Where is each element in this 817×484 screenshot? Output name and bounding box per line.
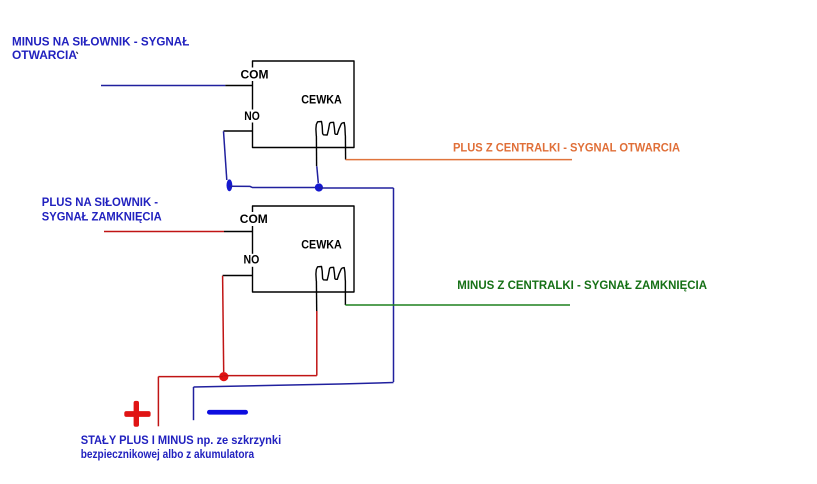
- wire: NO K1 down to node A (blue): [224, 131, 227, 180]
- wire: down to minus terminal (blue): [193, 387, 195, 420]
- wire: COM K1 stub (black): [225, 85, 252, 87]
- relay K1 body: [253, 61, 355, 148]
- relay K2 body: [253, 206, 355, 292]
- battery plus terminal symbol (red +): [124, 401, 150, 427]
- node C junction (red dot): [219, 372, 228, 381]
- wire: down to plus terminal (red): [157, 377, 159, 427]
- wire: riser up to coil L2 (red): [316, 311, 318, 376]
- coil L2 left lead (black): [315, 281, 317, 311]
- label: PLUS NA SILOWNIK - SYGNAL ZAMKNIECIA (blue): [42, 197, 162, 224]
- svg-text:NO: NO: [244, 253, 260, 267]
- wire: COM K2 stub (black): [224, 231, 253, 233]
- svg-text:OTWARCIA: OTWARCIA: [12, 50, 77, 62]
- wire: node C to coil riser (red): [223, 375, 316, 377]
- wire: right riser down (blue): [393, 188, 395, 382]
- wire: plus z centralki (orange): [346, 159, 572, 161]
- svg-text:COM: COM: [241, 67, 269, 81]
- wire: node B to right riser (blue): [319, 187, 394, 189]
- wire: node A to node B (blue): [229, 186, 318, 187]
- coil L1 winding: [316, 122, 345, 137]
- svg-text:PLUS Z CENTRALKI - SYGNAL OTWA: PLUS Z CENTRALKI - SYGNAL OTWARCIA: [453, 142, 680, 154]
- svg-text:CEWKA: CEWKA: [301, 237, 342, 251]
- svg-text:STAŁY PLUS I MINUS np. ze szkr: STAŁY PLUS I MINUS np. ze szkrzynki: [81, 435, 282, 447]
- pin label NO (K2): [242, 253, 262, 267]
- svg-text:MINUS NA SIŁOWNIK - SYGNAŁ: MINUS NA SIŁOWNIK - SYGNAŁ: [12, 36, 189, 48]
- svg-text:CEWKA: CEWKA: [301, 93, 342, 107]
- label: MINUS NA SILOWNIK - SYGNAL OTWARCIA (blue): [12, 36, 189, 62]
- coil L1 right lead (black): [344, 136, 346, 160]
- wire: coil L1 left lead to node B (blue): [317, 166, 319, 183]
- pin label COM (K2): [238, 212, 270, 226]
- pin label NO (K1): [243, 109, 263, 123]
- svg-text:COM: COM: [240, 212, 268, 226]
- coil L2 right lead (black): [344, 281, 346, 306]
- svg-text:PLUS NA SIŁOWNIK -: PLUS NA SIŁOWNIK -: [42, 197, 158, 209]
- label: STALY PLUS I MINUS ... (navy): [81, 435, 282, 461]
- node A junction (blue oval): [227, 179, 233, 191]
- svg-text:bezpiecznikowej albo z akumula: bezpiecznikowej albo z akumulatora: [81, 449, 255, 461]
- wire: node C to left (red): [158, 376, 223, 378]
- svg-text:NO: NO: [244, 109, 259, 123]
- wire: NO K2 down to node C (red): [223, 276, 224, 372]
- wire: COM K1 to actuator (blue, minus na silownik): [101, 85, 225, 87]
- coil L2 winding: [316, 267, 345, 282]
- svg-text:SYGNAŁ ZAMKNIĘCIA: SYGNAŁ ZAMKNIĘCIA: [42, 212, 162, 224]
- wire: NO K1 stub (black): [224, 130, 253, 132]
- wire: minus z centralki (green): [345, 304, 570, 306]
- wire: plus na silownik (red): [104, 231, 224, 233]
- wire: NO K2 stub (black): [223, 275, 253, 277]
- wire: riser to battery minus, slanted (blue): [194, 383, 394, 388]
- coil L1 left lead (black): [315, 136, 317, 166]
- pin label COM (K1): [239, 67, 271, 81]
- node B junction (blue dot): [315, 183, 323, 191]
- svg-text:MINUS Z CENTRALKI - SYGNAŁ ZAM: MINUS Z CENTRALKI - SYGNAŁ ZAMKNIĘCIA: [457, 280, 707, 292]
- battery minus terminal symbol (blue bar): [207, 410, 248, 415]
